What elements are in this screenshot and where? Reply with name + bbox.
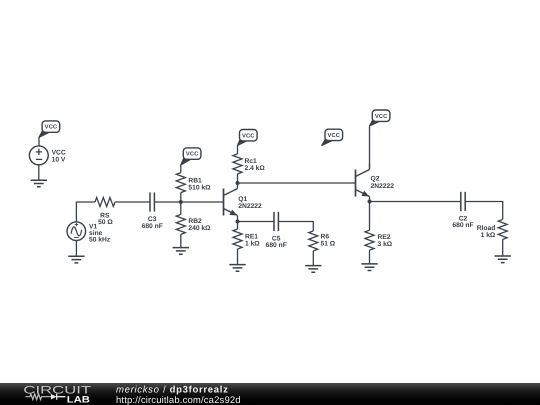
svg-text:51 Ω: 51 Ω xyxy=(321,240,336,247)
svg-text:RE2: RE2 xyxy=(378,234,391,241)
svg-text:LAB: LAB xyxy=(67,395,90,405)
svg-text:2.4 kΩ: 2.4 kΩ xyxy=(245,165,266,172)
svg-text:Q2: Q2 xyxy=(371,176,380,183)
svg-text:3 kΩ: 3 kΩ xyxy=(378,241,393,248)
svg-text:50 kHz: 50 kHz xyxy=(89,237,111,244)
svg-text:VCC: VCC xyxy=(186,151,199,158)
svg-text:50 Ω: 50 Ω xyxy=(98,219,113,226)
svg-text:Rc1: Rc1 xyxy=(245,158,258,165)
svg-text:VCC: VCC xyxy=(375,113,388,120)
svg-text:1 kΩ: 1 kΩ xyxy=(481,232,496,239)
svg-text:VCC: VCC xyxy=(52,149,66,156)
svg-text:VCC: VCC xyxy=(242,132,255,139)
svg-text:2N2222: 2N2222 xyxy=(371,183,395,190)
svg-text:VCC: VCC xyxy=(328,132,341,139)
svg-text:merickso / dp3forrealz: merickso / dp3forrealz xyxy=(116,384,229,395)
svg-text:Q1: Q1 xyxy=(238,196,247,203)
svg-text:RB2: RB2 xyxy=(188,218,202,225)
svg-text:680 nF: 680 nF xyxy=(266,242,287,249)
svg-text:2N2222: 2N2222 xyxy=(238,203,262,210)
svg-text:240 kΩ: 240 kΩ xyxy=(188,225,211,232)
svg-text:1 kΩ: 1 kΩ xyxy=(245,241,260,248)
svg-text:VCC: VCC xyxy=(45,124,58,131)
svg-text:510 kΩ: 510 kΩ xyxy=(188,184,211,191)
svg-text:RE1: RE1 xyxy=(245,234,258,241)
svg-text:10 V: 10 V xyxy=(52,156,66,163)
svg-text:680 nF: 680 nF xyxy=(142,223,163,230)
svg-text:RB1: RB1 xyxy=(188,177,202,184)
svg-text:http://circuitlab.com/ca2s92d: http://circuitlab.com/ca2s92d xyxy=(116,395,241,405)
svg-text:680 nF: 680 nF xyxy=(452,222,473,229)
